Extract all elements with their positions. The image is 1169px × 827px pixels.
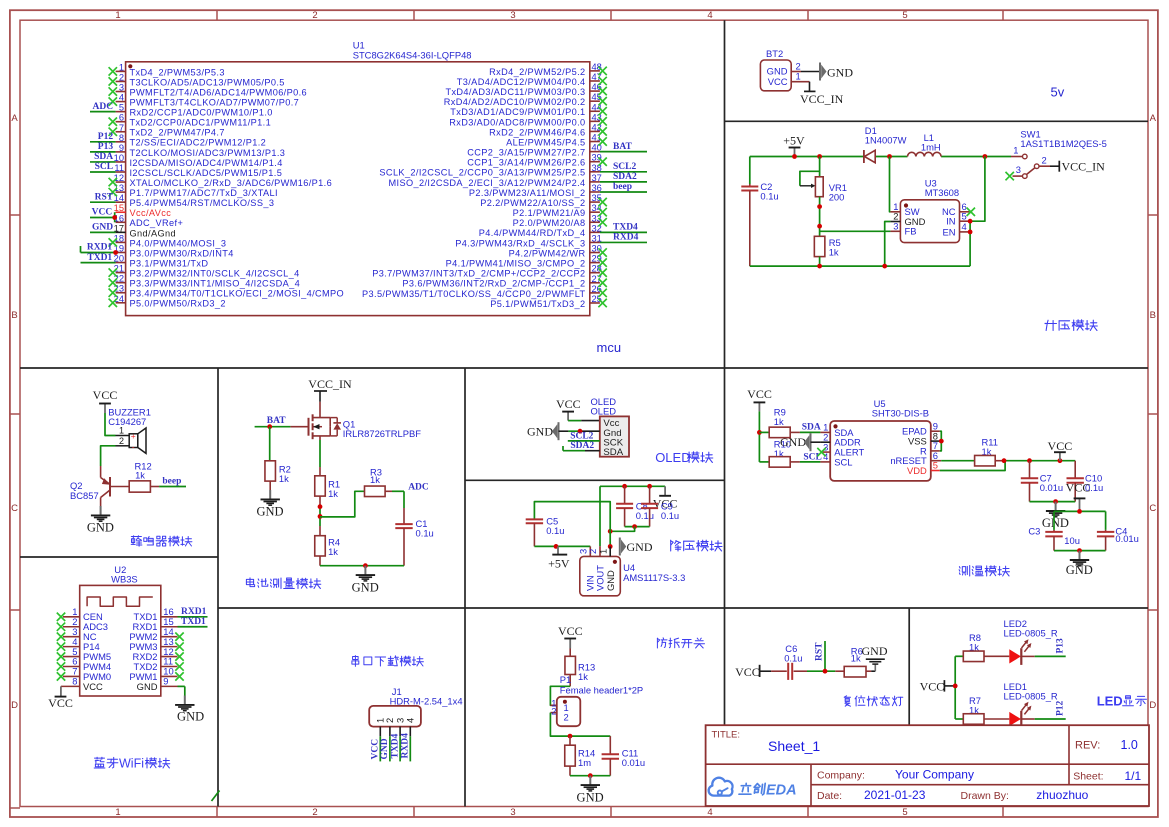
label boost module [1045, 320, 1098, 331]
power VCC temp [747, 387, 772, 411]
svg-text:B: B [1150, 310, 1156, 321]
label bluetooth wifi module [94, 757, 170, 771]
svg-text:1: 1 [1013, 145, 1018, 156]
svg-text:GND: GND [627, 540, 653, 554]
capacitor C8 [616, 486, 654, 526]
U2 right pins [129, 606, 183, 692]
converter U3 [890, 178, 975, 243]
wire boost top rail [750, 154, 1011, 159]
wire net RXD4 at J1 [401, 733, 411, 759]
svg-text:D: D [1149, 700, 1156, 711]
svg-text:IRLR8726TRLPBF: IRLR8726TRLPBF [343, 428, 421, 439]
wire R1 to R4 node [318, 504, 323, 526]
svg-text:P12: P12 [98, 132, 114, 142]
svg-text:5: 5 [962, 210, 967, 221]
svg-text:8: 8 [72, 676, 77, 687]
green corner mark [212, 791, 220, 802]
wire net P12 [90, 132, 116, 142]
svg-text:2: 2 [564, 712, 569, 723]
svg-text:BT2: BT2 [766, 48, 783, 59]
wire net RXD4 [600, 233, 647, 243]
label OLED module [655, 450, 713, 465]
wire P1 pin2 down [550, 713, 610, 739]
svg-text:39: 39 [592, 153, 602, 163]
wire net VCC at J1 [371, 739, 381, 760]
wire net BAT [600, 142, 647, 152]
battery BT2 [760, 48, 791, 91]
wire U3 FB [820, 230, 891, 232]
svg-text:LED-0805_R: LED-0805_R [1004, 627, 1058, 638]
svg-text:P1.7/PWM17/ADC7/TxD_3/XTALI: P1.7/PWM17/ADC7/TxD_3/XTALI [130, 188, 278, 198]
svg-text:6: 6 [119, 113, 124, 123]
svg-text:-: - [132, 442, 135, 452]
BT2 pin 1 wire [791, 71, 809, 92]
svg-text:21: 21 [114, 264, 124, 274]
svg-text:GND: GND [862, 644, 888, 658]
svg-text:RXD1: RXD1 [181, 607, 207, 617]
svg-text:VCC: VCC [768, 76, 788, 87]
wire temp node C [1054, 509, 1106, 514]
svg-text:1k: 1k [279, 473, 289, 484]
svg-text:200: 200 [829, 192, 845, 203]
svg-text:P12: P12 [1056, 700, 1066, 716]
svg-text:P4.3/PWM43/RxD_4/SCLK_3: P4.3/PWM43/RxD_4/SCLK_3 [455, 238, 585, 248]
svg-text:GND: GND [577, 790, 604, 804]
resistor R5 [814, 236, 840, 266]
wire net beep [600, 182, 647, 192]
svg-text:3: 3 [510, 807, 515, 818]
wire net GND [90, 223, 116, 233]
resistor R3 [365, 466, 393, 496]
capacitor C1 [395, 508, 433, 566]
svg-text:2: 2 [551, 705, 556, 716]
svg-text:0.1u: 0.1u [546, 525, 564, 536]
svg-text:GND: GND [137, 681, 158, 692]
capacitor C6 [771, 643, 807, 680]
svg-text:0.1u: 0.1u [636, 510, 654, 521]
svg-text:RST: RST [95, 192, 114, 202]
ground GND battery rail [352, 566, 379, 595]
svg-text:EDA: EDA [766, 783, 797, 799]
svg-text:beep: beep [162, 477, 181, 487]
svg-text:0.1u: 0.1u [760, 191, 778, 202]
svg-text:30: 30 [592, 244, 602, 254]
svg-text:Female header1*2P: Female header1*2P [560, 685, 643, 696]
wire net SCL [90, 162, 116, 172]
svg-text:XTALO/MCLKO_2/RxD_3/ADC6/PWM16: XTALO/MCLKO_2/RxD_3/ADC6/PWM16/P1.6 [130, 178, 333, 188]
svg-text:GND: GND [827, 66, 853, 80]
switch SW1 [1006, 129, 1107, 181]
svg-text:+5V: +5V [783, 134, 805, 148]
svg-text:mcu: mcu [597, 340, 622, 355]
power VCC oled [556, 397, 581, 421]
resistor R10 [769, 439, 800, 468]
svg-text:IN: IN [946, 216, 955, 227]
label 5v [1051, 85, 1065, 100]
svg-text:VDD: VDD [907, 465, 927, 476]
wire net TXD4 [600, 223, 647, 233]
svg-text:P3.1/PWM31/TxD: P3.1/PWM31/TxD [130, 258, 209, 268]
power VCC temp right [1048, 439, 1073, 461]
svg-text:GND: GND [177, 710, 204, 724]
capacitor C10 [1067, 461, 1104, 502]
ground GND tamper [577, 776, 604, 805]
svg-text:RxD2_2/PWM46/P4.6: RxD2_2/PWM46/P4.6 [489, 127, 585, 137]
svg-text:I2CSCL/SCLK/ADC5/PWM15/P1.5: I2CSCL/SCLK/ADC5/PWM15/P1.5 [130, 168, 283, 178]
svg-text:RxD4_2/PWM52/P5.2: RxD4_2/PWM52/P5.2 [489, 67, 585, 77]
wire temp node D [1054, 548, 1106, 553]
svg-text:VCC: VCC [1048, 439, 1073, 453]
svg-text:P2.1/PWM21/A9: P2.1/PWM21/A9 [513, 208, 586, 218]
power +5V buck [548, 546, 570, 570]
svg-text:5: 5 [933, 460, 938, 471]
wire EPAD VSS R loop [939, 431, 944, 451]
resistor R13 [565, 649, 595, 687]
ground flag GND at oled [527, 422, 568, 440]
svg-text:4: 4 [405, 718, 416, 723]
svg-text:zhuozhuo: zhuozhuo [1036, 788, 1088, 802]
resistor R6 [835, 646, 871, 678]
svg-text:VCC: VCC [83, 681, 103, 692]
svg-text:0.1u: 0.1u [784, 652, 802, 663]
svg-text:MT3608: MT3608 [925, 187, 959, 198]
svg-text:1k: 1k [135, 470, 145, 481]
svg-text:Company:: Company: [817, 769, 865, 781]
label serial download module [352, 656, 424, 667]
svg-text:SCL: SCL [95, 162, 113, 172]
svg-text:EN: EN [942, 226, 955, 237]
resistor R7 [963, 695, 1009, 724]
ground flag GND at ADDR [780, 433, 820, 451]
svg-text:GND: GND [352, 581, 379, 595]
svg-text:1: 1 [115, 10, 120, 21]
svg-text:MISO_2/I2CSDA_2/ECI_3/A12/PWM2: MISO_2/I2CSDA_2/ECI_3/A12/PWM24/P2.4 [388, 178, 585, 188]
wire net SDA2 [600, 172, 647, 182]
wire net SCL2 to SCK [568, 431, 600, 441]
label buck module [671, 540, 722, 551]
svg-text:P3.5/PWM35/T1/T0CLKO/SS_4/CCP0: P3.5/PWM35/T1/T0CLKO/SS_4/CCP0_2/PWMFLT [362, 289, 585, 299]
wire net RST [807, 641, 835, 674]
wire net TXD4 at J1 [390, 733, 400, 758]
svg-text:1N4007W: 1N4007W [865, 135, 907, 146]
svg-text:C194267: C194267 [108, 416, 146, 427]
svg-text:TxD2/CCP0/ADC1/PWM11/P1.1: TxD2/CCP0/ADC1/PWM11/P1.1 [130, 118, 272, 128]
svg-text:TXD1: TXD1 [181, 617, 206, 627]
svg-text:VCC: VCC [747, 387, 772, 401]
wire net ADC corner [392, 483, 429, 509]
svg-text:0.01u: 0.01u [1115, 533, 1138, 544]
svg-text:VCC: VCC [371, 739, 381, 760]
svg-text:T3CLKO/AD5/ADC13/PWM05/P0.5: T3CLKO/AD5/ADC13/PWM05/P0.5 [130, 77, 285, 87]
U1 left pins [109, 62, 344, 308]
mcu U1 body [126, 40, 590, 316]
svg-text:SDA: SDA [94, 152, 113, 162]
capacitor C9 [641, 486, 679, 526]
wire U3 IN EN [968, 157, 985, 267]
svg-text:VCC: VCC [92, 208, 113, 218]
svg-text:RxD3/AD0/ADC8/PWM00/P0.0: RxD3/AD0/ADC8/PWM00/P0.0 [449, 117, 585, 127]
svg-text:35: 35 [592, 193, 602, 203]
capacitor C3 [1028, 511, 1080, 550]
svg-text:A: A [1150, 113, 1157, 124]
module U2 WB3S body [80, 564, 161, 696]
wire net P12 [1035, 700, 1066, 719]
svg-text:Vcc/AVcc: Vcc/AVcc [130, 208, 172, 218]
svg-text:GND: GND [92, 223, 113, 233]
svg-text:1: 1 [119, 425, 124, 435]
svg-text:P3.4/PWM34/T0/T1CLKO/ECI_2/MOS: P3.4/PWM34/T0/T1CLKO/ECI_2/MOSI_4/CMPO [130, 289, 345, 299]
resistor R8 [963, 632, 1009, 662]
svg-text:2: 2 [1042, 155, 1047, 166]
svg-text:GND: GND [1042, 516, 1069, 530]
svg-text:2: 2 [312, 807, 317, 818]
svg-text:2: 2 [312, 10, 317, 21]
svg-text:REV:: REV: [1075, 740, 1100, 752]
svg-text:GND: GND [780, 435, 806, 449]
svg-text:P4.4/PWM44/RD/TxD_4: P4.4/PWM44/RD/TxD_4 [479, 228, 586, 238]
wire net SCL2 [600, 162, 647, 172]
svg-text:1m: 1m [578, 757, 591, 768]
svg-text:AMS1117S-3.3: AMS1117S-3.3 [623, 572, 685, 583]
svg-text:P3.0/PWM30/RxD/INT4: P3.0/PWM30/RxD/INT4 [130, 248, 234, 258]
transistor Q2 [70, 466, 129, 506]
wire net SDA to U5 [800, 422, 821, 432]
wire net RXD1 [81, 243, 119, 255]
svg-text:beep: beep [613, 182, 632, 192]
capacitor C11 [602, 736, 646, 776]
wire Q1 source down [319, 440, 321, 467]
led LED1 [1004, 681, 1058, 728]
ground GND at U2 [175, 686, 204, 723]
svg-text:LED-0805_R: LED-0805_R [1004, 690, 1058, 701]
wire R13 to P1 pin1 [550, 686, 570, 705]
svg-text:7: 7 [119, 123, 124, 133]
svg-text:1k: 1k [328, 546, 338, 557]
svg-text:5: 5 [119, 103, 124, 113]
svg-text:VCC_IN: VCC_IN [1062, 160, 1106, 174]
svg-text:1k: 1k [370, 474, 380, 485]
svg-text:TXD4: TXD4 [390, 733, 400, 758]
svg-text:4: 4 [823, 451, 828, 462]
wire to C5 top [534, 502, 610, 532]
connector P1 [550, 674, 643, 726]
svg-text:TxD4/AD3/ADC11/PWM03/P0.3: TxD4/AD3/ADC11/PWM03/P0.3 [445, 87, 585, 97]
svg-text:P4.1/PWM41/MISO_3/CMPO_2: P4.1/PWM41/MISO_3/CMPO_2 [446, 259, 586, 269]
U1 right pins [362, 62, 607, 309]
wire boost bottom rail [750, 264, 970, 269]
svg-text:D: D [11, 700, 18, 711]
svg-text:VCC: VCC [556, 397, 581, 411]
svg-text:0.01u: 0.01u [1040, 482, 1063, 493]
svg-text:T3/AD4/ADC12/PWM04/P0.4: T3/AD4/ADC12/PWM04/P0.4 [457, 77, 586, 87]
svg-text:TxD2_2/PWM47/P4.7: TxD2_2/PWM47/P4.7 [130, 128, 225, 138]
wire SW pin1 riser [889, 157, 892, 212]
wire VDD loop [940, 461, 1005, 471]
ground flag GND at BT2 [820, 63, 853, 81]
connector J1 [369, 686, 462, 761]
svg-text:1mH: 1mH [921, 142, 941, 153]
svg-text:2: 2 [119, 72, 124, 82]
svg-text:Gnd/AGnd: Gnd/AGnd [130, 228, 176, 238]
wire VCC down to resistors [757, 411, 769, 462]
svg-text:10u: 10u [1064, 535, 1080, 546]
sensor U5 [817, 398, 941, 481]
svg-text:VCC_IN: VCC_IN [308, 377, 352, 391]
svg-text:WB3S: WB3S [111, 574, 138, 585]
wire net SDA [90, 152, 116, 162]
ground GND at Q2 [87, 506, 114, 535]
svg-text:0.01u: 0.01u [622, 757, 645, 768]
wire node to R3 [320, 491, 365, 517]
svg-text:3: 3 [893, 221, 898, 232]
BT2 pin 2 wire to GND [791, 61, 819, 72]
svg-text:GND: GND [87, 521, 114, 535]
svg-text:OLED: OLED [591, 405, 617, 416]
power VCC buck flag [653, 486, 678, 510]
led LED2 [1004, 618, 1058, 665]
wire temp node A [1002, 458, 1076, 463]
svg-text:VCC: VCC [1066, 481, 1091, 495]
resistor R14 [565, 736, 595, 776]
svg-text:GND: GND [605, 570, 616, 591]
svg-text:5v: 5v [1051, 85, 1065, 100]
wire net RST [90, 192, 116, 202]
diode D1 [864, 125, 907, 163]
svg-text:P2.2/PWM22/A10/SS_2: P2.2/PWM22/A10/SS_2 [480, 198, 585, 208]
wire battery bottom rail [320, 563, 404, 568]
svg-text:0.1u: 0.1u [416, 528, 434, 539]
svg-text:4: 4 [707, 807, 712, 818]
svg-text:5: 5 [902, 807, 907, 818]
svg-text:1k: 1k [774, 416, 784, 427]
power VCC reset [735, 665, 771, 679]
ground GND temp mid [1042, 502, 1069, 531]
label temperature module [959, 566, 1009, 577]
svg-text:GND: GND [1066, 563, 1093, 577]
svg-text:BC857: BC857 [70, 490, 99, 501]
label battery module [246, 578, 320, 589]
svg-text:P13: P13 [1056, 638, 1066, 654]
svg-text:SHT30-DIS-B: SHT30-DIS-B [872, 408, 929, 419]
frame column labels [115, 10, 907, 818]
svg-text:ADC: ADC [408, 483, 429, 493]
label mcu [597, 340, 622, 355]
svg-text:1/1: 1/1 [1125, 769, 1142, 783]
port VCC_IN at BT2 [800, 91, 844, 106]
buzzer BUZZER1 [108, 407, 151, 454]
svg-text:LED: LED [1097, 694, 1123, 709]
svg-text:11: 11 [114, 163, 124, 173]
wire VCC led riser [953, 656, 964, 719]
svg-text:4: 4 [707, 10, 712, 21]
wire net P13 [90, 142, 116, 152]
svg-text:Drawn By:: Drawn By: [961, 790, 1009, 802]
svg-text:SDA2: SDA2 [613, 172, 637, 182]
svg-text:TXD1: TXD1 [87, 253, 112, 263]
svg-text:5: 5 [902, 10, 907, 21]
mosfet Q1 [309, 402, 422, 440]
svg-text:C3: C3 [1028, 525, 1040, 536]
svg-text:1: 1 [597, 549, 608, 554]
svg-text:OLED: OLED [655, 450, 690, 465]
svg-text:RXD4: RXD4 [613, 233, 639, 243]
svg-text:I2CSDA/MISO/ADC4/PWM14/P1.4: I2CSDA/MISO/ADC4/PWM14/P1.4 [130, 158, 283, 168]
port VCC_IN battery measure [308, 377, 352, 402]
svg-text:P3.7/PWM37/INT3/TxD_2/CMP+/CCP: P3.7/PWM37/INT3/TxD_2/CMP+/CCP2_2/CCP2 [372, 269, 585, 279]
svg-text:3: 3 [510, 10, 515, 21]
resistor R4 [315, 526, 340, 566]
logo LCEDA [709, 778, 797, 799]
wire net beep [159, 477, 186, 487]
svg-text:P5.1/PWM51/TxD3_2: P5.1/PWM51/TxD3_2 [490, 299, 585, 309]
svg-text:P4.2/PWM42/WR: P4.2/PWM42/WR [509, 248, 586, 258]
resistor R9 [769, 407, 800, 438]
wire gate to BAT [255, 416, 309, 429]
inductor L1 [908, 132, 942, 157]
capacitor C2 [741, 157, 778, 267]
svg-text:1k: 1k [578, 671, 588, 682]
svg-text:PWMFLT2/T4/AD6/ADC14/PWM06/P0.: PWMFLT2/T4/AD6/ADC14/PWM06/P0.6 [130, 87, 308, 97]
svg-text:TITLE:: TITLE: [712, 730, 741, 741]
svg-text:P3.6/PWM36/INT2/RxD_2/CMP-/CCP: P3.6/PWM36/INT2/RxD_2/CMP-/CCP1_2 [402, 279, 585, 289]
svg-text:A: A [11, 113, 18, 124]
svg-text:VCC: VCC [48, 696, 73, 710]
power VCC tamper [558, 624, 583, 649]
wire VCC to oled [568, 420, 600, 422]
wire U3 GND to rail [885, 222, 891, 267]
svg-text:15: 15 [114, 203, 124, 213]
svg-text:+: + [131, 431, 136, 441]
capacitor C7 [1021, 461, 1063, 502]
svg-text:RxD2/CCP1/ADC0/PWM10/P1.0: RxD2/CCP1/ADC0/PWM10/P1.0 [130, 108, 273, 118]
power VCC lower flag [1066, 481, 1091, 512]
svg-text:GND: GND [256, 504, 283, 518]
svg-text:BAT: BAT [613, 142, 632, 152]
svg-text:1: 1 [796, 71, 801, 82]
svg-text:SCLK_2/I2CSCL_2/CCP0_3/A13/PWM: SCLK_2/I2CSCL_2/CCP0_3/A13/PWM25/P2.5 [379, 168, 585, 178]
svg-text:+5V: +5V [548, 557, 570, 571]
wire temp node B [1030, 499, 1076, 504]
svg-text:RXD4: RXD4 [401, 733, 411, 759]
svg-text:WiFi: WiFi [119, 757, 144, 771]
svg-text:18: 18 [114, 233, 124, 243]
svg-text:RST: RST [814, 642, 824, 661]
svg-text:TxD3/AD1/ADC9/PWM01/P0.1: TxD3/AD1/ADC9/PWM01/P0.1 [450, 107, 585, 117]
svg-text:VCC: VCC [558, 624, 583, 638]
capacitor C4 [1097, 511, 1139, 550]
U2 left pins [57, 606, 111, 692]
svg-text:B: B [11, 310, 17, 321]
wire net TXD1 at U2 [178, 617, 208, 627]
svg-text:4: 4 [962, 221, 967, 232]
svg-text:CCP1_3/A14/PWM26/P2.6: CCP1_3/A14/PWM26/P2.6 [467, 158, 585, 168]
svg-text:4: 4 [119, 93, 124, 103]
port VCC_IN at SW1 [1059, 160, 1105, 174]
wire C8 C9 bottoms [608, 524, 650, 534]
capacitor C5 [526, 516, 565, 547]
svg-text:VCC: VCC [93, 388, 118, 402]
resistor R11 [975, 436, 1004, 466]
svg-text:1k: 1k [829, 247, 839, 258]
svg-text:P13: P13 [98, 142, 114, 152]
wire VOUT riser [599, 486, 601, 546]
regulator U4 [578, 546, 686, 596]
wire net SDA2 to SDA [563, 441, 600, 451]
svg-text:GND: GND [527, 425, 553, 439]
svg-text:P1: P1 [560, 674, 571, 685]
wire tamper bottom rail [570, 773, 610, 778]
svg-text:1: 1 [119, 62, 124, 72]
